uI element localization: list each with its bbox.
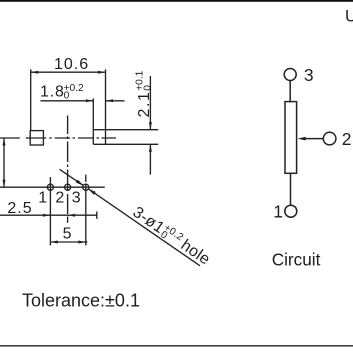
pin3 center mark (dash above) xyxy=(85,175,87,182)
svg-text:10.6: 10.6 xyxy=(54,56,89,73)
hole circle 2 xyxy=(65,184,71,190)
terminal 3 circle xyxy=(284,69,296,81)
resistor body R xyxy=(285,102,297,174)
body left edge / extension line xyxy=(30,69,32,130)
svg-text:Circuit: Circuit xyxy=(272,249,321,269)
svg-text:1.8: 1.8 xyxy=(40,83,65,100)
dimension line 2.1 (lower tail with arrow) xyxy=(149,144,151,174)
svg-text:3-ø1+0.20hole: 3-ø1+0.20hole xyxy=(129,203,213,269)
left pin square xyxy=(30,131,43,145)
svg-text:2: 2 xyxy=(342,129,352,149)
svg-text:2.1: 2.1 xyxy=(136,90,153,117)
svg-text:2.5: 2.5 xyxy=(7,200,32,217)
horizontal centerline y=138 (dash-dot) xyxy=(0,137,116,139)
svg-text:2: 2 xyxy=(55,189,64,206)
svg-text:Tolerance:±0.1: Tolerance:±0.1 xyxy=(22,291,140,311)
dimension line 5 xyxy=(50,241,87,243)
wire terminal3 to resistor xyxy=(289,80,291,101)
wiper wire with arrow xyxy=(304,138,323,140)
right pin top edge / extension line for 2.1 xyxy=(93,129,158,131)
svg-text:0: 0 xyxy=(142,85,153,91)
terminal 1 circle xyxy=(285,205,297,217)
circuit: potentiometer xyxy=(284,69,336,218)
svg-text:1: 1 xyxy=(38,189,47,206)
dimension line 2.1 (upper tail with arrow) xyxy=(149,76,151,130)
leader line lower segment with arrow to hole 3 xyxy=(88,189,200,266)
dimension line 2.5 xyxy=(0,214,97,216)
body right edge / extension line xyxy=(105,69,107,144)
left vertical dimension line xyxy=(3,138,5,187)
wire resistor to terminal1 xyxy=(290,173,292,205)
text 2.1 +0.1/0 (rotated) xyxy=(135,70,154,117)
svg-text:3: 3 xyxy=(304,65,314,85)
svg-text:5: 5 xyxy=(63,226,72,243)
right pin bottom edge / extension line for 2.1 xyxy=(93,143,158,145)
leader line upper segment with arrow to hole 3 xyxy=(60,169,84,185)
terminal 2 circle xyxy=(323,132,336,145)
pin3 extension line xyxy=(85,185,87,246)
vertical centerline x=67.6 (dash-dot) xyxy=(67,116,69,223)
dimension line 10.6 xyxy=(31,71,106,73)
text 3-ø1 +0.2/0 hole (rotated along leader) xyxy=(129,203,213,269)
dimension line 1.8 (left tail with arrow) xyxy=(41,100,94,102)
ground line xyxy=(0,186,105,188)
dimension line 1.8 (right tail with arrow) xyxy=(106,100,125,102)
svg-text:0: 0 xyxy=(64,90,70,101)
svg-text:3: 3 xyxy=(72,189,81,206)
svg-text:1: 1 xyxy=(273,201,283,221)
hole circle 3 xyxy=(83,184,89,190)
top border bar xyxy=(0,0,353,2)
hole circle 1 xyxy=(47,184,53,190)
tick at end of 2.5 line xyxy=(96,212,98,219)
extension line right pin left edge xyxy=(92,98,94,144)
bottom rule xyxy=(0,345,353,347)
svg-text:U: U xyxy=(345,8,353,26)
pin1 center mark / extension line xyxy=(49,177,51,245)
